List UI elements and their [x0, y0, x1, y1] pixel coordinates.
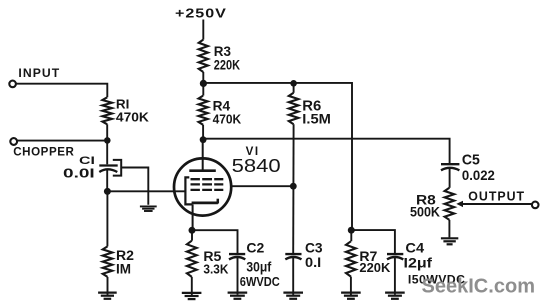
resistor R1	[102, 97, 112, 124]
svg-text:+250V: +250V	[175, 6, 227, 21]
ground (C2)	[228, 292, 248, 294]
wire C1 shield to ground	[121, 168, 148, 205]
op: vacuum tube V1 5840 envelope	[174, 158, 231, 215]
tube plate lead	[202, 140, 204, 170]
svg-text:30μf: 30μf	[246, 260, 271, 275]
wire CHOPPER to node	[17, 140, 107, 142]
wire R6 to C3 (screen rail)	[292, 124, 294, 253]
tube grid side rail	[185, 177, 192, 204]
terminal INPUT	[9, 81, 16, 88]
capacitor C2	[192, 230, 238, 253]
wire INPUT to R1	[16, 84, 107, 98]
ground (R8)	[441, 237, 458, 239]
svg-text:0.I: 0.I	[305, 254, 321, 270]
resistor R4	[202, 83, 204, 95]
terminal OUTPUT	[532, 202, 539, 209]
node R6 top junction dot	[290, 80, 297, 87]
tube cathode bar	[192, 202, 218, 205]
svg-text:6WVDC: 6WVDC	[240, 275, 280, 289]
resistor R5	[191, 230, 193, 240]
ground (R5)	[182, 292, 202, 294]
svg-text:R3: R3	[214, 43, 231, 59]
node A junction dot	[200, 80, 207, 87]
capacitor C5	[441, 163, 459, 165]
wire wiper to OUTPUT	[462, 203, 532, 205]
potentiometer R8	[445, 188, 455, 220]
svg-text:INPUT: INPUT	[18, 68, 60, 80]
svg-text:470K: 470K	[213, 111, 242, 126]
terminal CHOPPER	[10, 138, 17, 145]
resistor R7	[350, 230, 352, 241]
svg-text:220K: 220K	[359, 260, 391, 275]
svg-text:SeekIC.com: SeekIC.com	[422, 274, 536, 297]
node plate junction dot	[200, 136, 207, 143]
wire +250V to R3	[202, 20, 204, 40]
ground (C1 shield)	[140, 205, 157, 207]
wire plate line to C5	[203, 139, 450, 164]
resistor R2	[106, 191, 108, 246]
svg-text:OUTPUT: OUTPUT	[468, 190, 525, 204]
svg-text:C4: C4	[405, 239, 424, 255]
tube grid dashes row 3	[191, 189, 224, 191]
capacitor C1	[106, 140, 108, 164]
tube grid dashes row 2	[191, 183, 224, 185]
svg-text:3.3K: 3.3K	[203, 262, 229, 277]
ground (C4)	[385, 292, 405, 294]
svg-text:5840: 5840	[232, 156, 281, 176]
svg-text:0.022: 0.022	[462, 168, 495, 184]
wire screen grid to bypass	[231, 185, 293, 187]
wire R3 to node A	[202, 72, 204, 83]
svg-text:0.0I: 0.0I	[63, 166, 95, 181]
node screen junction dot	[290, 183, 297, 190]
svg-text:C5: C5	[462, 152, 480, 169]
svg-text:470K: 470K	[116, 110, 150, 125]
ground (R2)	[98, 292, 117, 294]
C1 shield bracket	[113, 160, 121, 176]
tube cathode lead	[192, 204, 194, 230]
R8 wiper arrow	[456, 201, 463, 207]
svg-text:I2μf: I2μf	[404, 255, 433, 270]
resistor R3	[199, 40, 208, 72]
node chopper junction dot	[104, 137, 111, 144]
resistor R6	[293, 83, 295, 93]
wire node A to screen/filter riser	[203, 83, 352, 230]
svg-text:CHOPPER: CHOPPER	[13, 144, 74, 158]
svg-text:C2: C2	[246, 241, 264, 256]
capacitor C4	[351, 230, 395, 253]
tube grid dashes row 1	[191, 179, 224, 190]
svg-text:220K: 220K	[214, 58, 240, 73]
svg-text:I.5M: I.5M	[302, 112, 331, 127]
node filter junction dot	[348, 227, 355, 234]
capacitor C3	[285, 253, 301, 255]
svg-text:IM: IM	[116, 262, 131, 277]
wire grid line to tube	[107, 190, 185, 192]
tube plate bar	[189, 169, 216, 172]
ground (R7)	[341, 292, 361, 294]
ground (C3)	[283, 292, 303, 294]
node cathode junction dot	[189, 227, 196, 234]
node grid junction dot	[104, 188, 111, 195]
svg-text:500K: 500K	[410, 205, 440, 220]
